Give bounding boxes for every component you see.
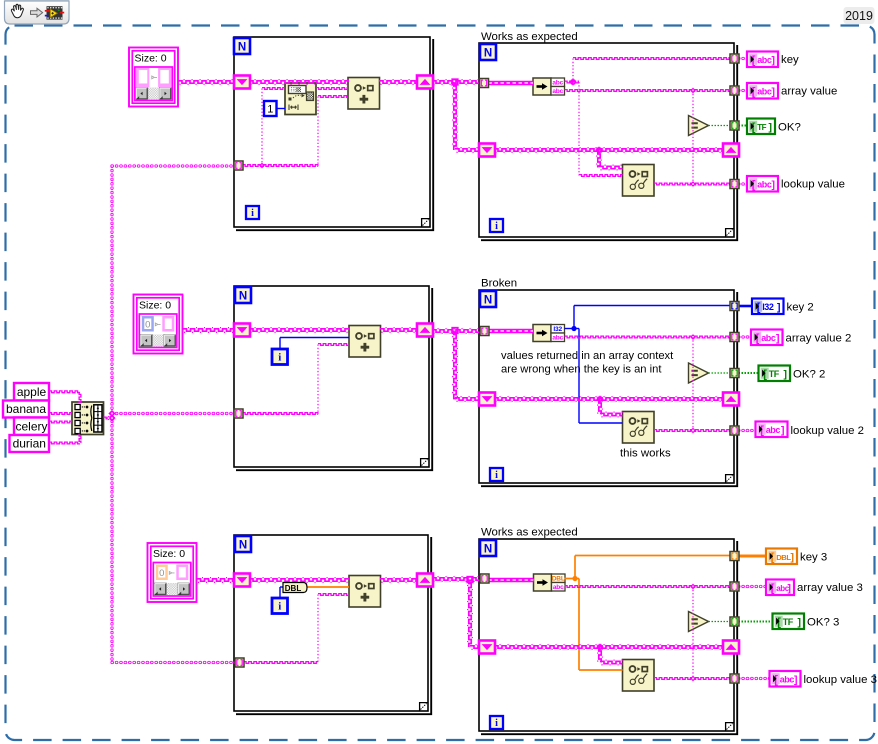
wire value to insert node C [318, 344, 349, 346]
svg-text:array value 2: array value 2 [786, 333, 852, 345]
map wire into loop B shift register [455, 148, 480, 153]
OK? 3 boolean stub [739, 621, 773, 623]
look-in-map node (loop D) [623, 412, 655, 444]
svg-text:lookup value 2: lookup value 2 [791, 425, 864, 437]
key wire drop to lookup F [578, 579, 580, 671]
wire apple drop into node top [79, 392, 81, 403]
map jog into lookup B [599, 165, 623, 170]
string constant celery [14, 418, 49, 436]
svg-text:abc: abc [757, 86, 772, 96]
wire key cell out (loop D) [565, 328, 580, 330]
map wire loop C out to loop D tunnel [432, 329, 480, 334]
tunnel OK out (loop B) [730, 121, 739, 130]
tunnel key 2 out (loop D) [730, 302, 739, 311]
junction map wire loop B [596, 147, 603, 154]
element wire from loop C tunnel [243, 413, 319, 415]
map jog down loop D [598, 399, 603, 415]
svg-text:OK?: OK? [778, 122, 801, 134]
junction lookup value loop F [690, 676, 696, 682]
svg-text:i: i [278, 601, 281, 613]
svg-text:key 2: key 2 [787, 302, 814, 314]
map jog into lookup D [600, 412, 623, 417]
index array node (loop D) [533, 325, 565, 342]
junction array value loop D [690, 334, 696, 340]
indicator array value 3 [766, 580, 794, 596]
junction at build node output [108, 414, 115, 421]
element wire from loop A tunnel [243, 165, 319, 167]
svg-text:DBL: DBL [776, 553, 791, 562]
svg-text:i: i [251, 208, 254, 219]
indicator key [747, 52, 778, 68]
svg-text:Size: 0: Size: 0 [153, 548, 185, 560]
svg-text:]: ] [784, 368, 788, 380]
tunnel loop C left [234, 409, 243, 418]
element wire from loop E tunnel [244, 662, 319, 664]
svg-text:key: key [781, 54, 799, 66]
tunnel array value 2 out (loop D) [730, 333, 739, 342]
indicator array value 2 [751, 330, 783, 346]
svg-text:Works as expected: Works as expected [481, 527, 578, 539]
junction array value loop B [690, 88, 696, 94]
map wire constant1 to loop A shift register [178, 80, 235, 85]
map wire across loop E to insert node [249, 578, 349, 583]
svg-text:abc: abc [553, 584, 564, 591]
equals node (loop F) [689, 612, 709, 632]
svg-text:lookup value: lookup value [781, 179, 845, 191]
build array node (left) [72, 402, 104, 435]
key 2 array stub [739, 305, 753, 308]
wire value drop loop C [317, 345, 319, 414]
equals node (loop B) [689, 116, 709, 136]
loop B count terminal N [480, 44, 496, 60]
for loop C (middle-left) border [234, 286, 432, 470]
map wire insert node to right shift register [379, 80, 418, 85]
map wire loop E out to loop F tunnel [432, 577, 480, 582]
svg-text:N: N [238, 42, 246, 54]
string constant banana [3, 401, 49, 418]
indicator lookup value 2 [756, 422, 788, 438]
wire value drop loop E [317, 595, 319, 663]
array branch wire to loop E tunnel [112, 661, 236, 664]
loop D count terminal N [480, 291, 496, 307]
svg-text:lookup value 3: lookup value 3 [804, 674, 877, 686]
boolean wire equals to tunnel F [709, 621, 732, 623]
loop C count terminal N [235, 287, 251, 303]
svg-text:]: ] [772, 179, 776, 191]
svg-text:]: ] [781, 424, 785, 436]
map wire drop to loop D shift register [453, 331, 458, 400]
svg-text:celery: celery [15, 420, 47, 434]
wire drop from subset input [261, 89, 263, 166]
array value stub [739, 89, 748, 92]
wire banana to build node [49, 413, 72, 415]
2019 version tab [844, 7, 875, 24]
junction loop C output [452, 328, 457, 333]
lookup value 3 stub [739, 677, 770, 680]
svg-text:array value: array value [781, 86, 837, 98]
shift register left (loop D) [479, 393, 495, 406]
tunnel lookup value out (loop B) [730, 180, 739, 189]
tunnel loop E left [235, 658, 244, 667]
svg-text:values returned in an array co: values returned in an array context [501, 350, 674, 362]
array trunk wire vertical [110, 166, 113, 663]
svg-text:]: ] [769, 121, 773, 133]
map wire loop A out to loop B tunnel [432, 80, 480, 85]
svg-text:]: ] [772, 86, 776, 98]
map wire insert to right shift register C [380, 328, 418, 333]
compare wire drop loop F [692, 587, 694, 679]
indicator key 2 [752, 299, 784, 315]
lookup value 2 stub [739, 429, 756, 432]
svg-text:1: 1 [267, 104, 273, 116]
index array node (loop F) [534, 574, 566, 591]
OK? 2 boolean stub [739, 372, 759, 374]
svg-text:]: ] [798, 616, 802, 628]
key wire rise loop B [572, 59, 574, 83]
loop A iteration terminal i [246, 206, 259, 219]
lookup value stub [739, 182, 748, 185]
array value 3 stub [739, 585, 767, 588]
array subset node in loop A [285, 83, 316, 115]
map wire into loop F shift register [470, 645, 480, 650]
loop E iteration terminal i [272, 598, 288, 614]
svg-text:Size: 0: Size: 0 [135, 53, 167, 65]
shift register right (loop B) [723, 144, 739, 157]
OK? boolean stub [739, 125, 748, 127]
key wire into lookup node B [579, 175, 622, 177]
wire key junction jog [573, 81, 579, 83]
key array stub [739, 57, 748, 60]
svg-text:Broken: Broken [481, 277, 517, 289]
toolbar pan-hand icon [11, 4, 23, 17]
array branch wire to loop C tunnel [112, 412, 235, 415]
junction map wire loop D [597, 396, 604, 403]
junction key wire loop D [571, 326, 576, 331]
indicator key 3 [766, 549, 797, 565]
svg-text:]: ] [791, 551, 795, 563]
svg-text:I32: I32 [553, 326, 562, 333]
svg-text:durian: durian [13, 437, 46, 451]
wire value drop loop A [317, 97, 319, 166]
svg-text:DBL: DBL [552, 576, 565, 583]
svg-text:i: i [495, 221, 498, 232]
array value wire loop F [565, 586, 731, 588]
svg-text:OK? 2: OK? 2 [793, 369, 825, 381]
DBL cast constant (loop E) [283, 583, 307, 594]
index array node (loop B) [533, 78, 565, 95]
map jog down loop F [598, 647, 603, 663]
svg-text:abc: abc [761, 333, 776, 343]
wire subset out to insert key [316, 88, 348, 90]
junction map wire loop F [597, 644, 604, 651]
shift register left (loop A) [234, 76, 250, 89]
map wire across loop F [494, 645, 723, 650]
insert-into-map node (loop E) [349, 576, 381, 608]
svg-text:are wrong when the key is an i: are wrong when the key is an int [501, 364, 662, 376]
svg-text:array value 3: array value 3 [797, 582, 863, 594]
key wire into lookup node F [579, 669, 623, 671]
lookup value wire loop F [654, 678, 731, 680]
boolean wire equals to tunnel B [709, 125, 732, 127]
boolean wire equals to tunnel D [709, 372, 732, 374]
loop A count terminal N [234, 38, 250, 54]
svg-text:I32: I32 [762, 302, 774, 312]
indicator lookup value 3 [770, 671, 801, 687]
wire durian to build node [49, 442, 80, 444]
svg-text:N: N [484, 295, 492, 307]
map wire constant2 to loop C shift register [183, 328, 236, 333]
map constant Size:0 (group 3) [148, 543, 197, 602]
key wire to tunnel loop B [573, 58, 731, 60]
key 3 array stub [739, 555, 767, 558]
shift register right (loop D) [723, 393, 739, 406]
insert-into-map node (loop C) [349, 326, 381, 358]
while loop D (middle-right) border [479, 290, 737, 486]
svg-text:N: N [239, 540, 247, 552]
junction key wire loop B [570, 79, 577, 86]
while loop F (bottom-right) border [479, 539, 737, 734]
compare wire drop loop D [692, 337, 694, 431]
svg-text:i: i [495, 718, 498, 729]
key wire to tunnel loop F [575, 555, 731, 557]
indicator lookup value [747, 176, 778, 192]
svg-text:this works: this works [620, 448, 671, 460]
array value wire loop D [565, 336, 731, 338]
loop F count terminal N [480, 540, 496, 556]
wire DBL constant to insert key E [307, 586, 349, 588]
wire apple to build node [49, 391, 80, 393]
look-in-map node (loop F) [623, 660, 655, 692]
tunnel loop F left [480, 574, 489, 583]
string array wire into index node B [489, 81, 534, 86]
svg-text:abc: abc [552, 80, 563, 87]
junction on loop A element wire [259, 163, 265, 169]
junction array value loop F [690, 584, 696, 590]
junction lookup value loop D [690, 428, 696, 434]
svg-text:banana: banana [6, 402, 46, 416]
map wire across loop B [494, 148, 723, 153]
insert-into-map node (loop A) [348, 78, 380, 110]
svg-text:i: i [278, 352, 281, 364]
lookup value wire loop D [654, 430, 731, 432]
for loop E (bottom-left) border [234, 535, 431, 714]
indicator array value [747, 83, 778, 99]
svg-text:apple: apple [17, 385, 47, 399]
svg-text:]: ] [777, 301, 781, 313]
svg-text:abc: abc [552, 88, 563, 95]
svg-text:key 3: key 3 [800, 552, 827, 564]
key wire drop to lookup D [578, 329, 580, 424]
junction on array trunk [108, 410, 115, 417]
svg-text:]: ] [772, 54, 776, 66]
array branch wire to loop A tunnel [112, 164, 235, 167]
svg-text:N: N [484, 48, 492, 60]
svg-text:2019: 2019 [845, 9, 873, 23]
shift register left (loop B) [479, 144, 495, 157]
shift register left (loop C) [234, 324, 250, 337]
wire array to subset node [262, 88, 285, 90]
map wire insert to right shift register E [380, 578, 418, 583]
svg-text:]: ] [794, 674, 798, 686]
shift register left (loop E) [234, 574, 250, 587]
svg-text:DBL: DBL [285, 584, 302, 593]
map jog into lookup F [600, 660, 623, 665]
junction loop A output [452, 79, 457, 84]
svg-text:TF: TF [769, 369, 780, 379]
toolbar VI-snippet film icon [45, 6, 64, 19]
svg-text:OK? 3: OK? 3 [807, 617, 839, 629]
tunnel loop B left [480, 79, 489, 88]
loop F iteration terminal i [490, 716, 503, 729]
wire value to insert node E [318, 594, 349, 596]
loop D iteration terminal i [490, 468, 503, 481]
tunnel loop A left [234, 161, 243, 170]
wire i terminal to insert key C [280, 337, 349, 339]
shift register right (loop E) [417, 574, 433, 587]
junction key wire loop F [572, 576, 577, 581]
svg-text:0: 0 [145, 320, 150, 331]
string array wire into index node F [489, 578, 534, 583]
svg-text:TF: TF [783, 617, 794, 627]
shift register right (loop F) [723, 641, 739, 654]
svg-text:i: i [495, 470, 498, 481]
tunnel OK 3 out (loop F) [730, 617, 739, 626]
shift register left (loop F) [479, 641, 495, 654]
indicator OK? 2 [759, 366, 791, 382]
map wire across loop A to insert node [249, 80, 349, 85]
tunnel lookup value 2 out (loop D) [730, 426, 739, 435]
wire build node output stub [104, 417, 112, 419]
svg-text:abc: abc [766, 425, 781, 435]
look-in-map node (loop B) [623, 165, 655, 197]
map wire into loop D shift register [455, 397, 480, 402]
svg-text:]: ] [776, 332, 780, 344]
wire value to insert node [318, 96, 348, 98]
svg-text:Size: 0: Size: 0 [139, 300, 171, 312]
key wire into lookup node D [579, 422, 623, 424]
key wire rise loop D [573, 306, 575, 329]
wire i terminal rise C [279, 338, 281, 350]
svg-text:TF: TF [757, 123, 766, 132]
svg-text:abc: abc [780, 674, 795, 684]
tunnel OK 2 out (loop D) [730, 369, 739, 378]
map wire across loop C to insert node [249, 328, 349, 333]
svg-text:abc: abc [552, 335, 563, 342]
svg-text:Works as expected: Works as expected [481, 31, 578, 43]
map wire drop to loop F shift register [468, 580, 473, 648]
toolbar run-arrow icon [31, 8, 43, 17]
while loop B (top-right) border [479, 43, 737, 240]
wire celery to build node [49, 421, 72, 423]
map constant Size:0 (group 2) [134, 295, 183, 354]
wire key cell out (loop B) [565, 81, 573, 83]
string constant durian [10, 435, 50, 452]
tunnel array value 3 out (loop F) [730, 582, 739, 591]
array value 2 stub [739, 335, 752, 338]
shift register right (loop A) [417, 76, 433, 89]
map wire drop to loop B shift register [453, 82, 458, 150]
map wire constant3 to loop E shift register [197, 578, 236, 583]
key wire to tunnel loop D [574, 305, 731, 307]
numeric constant 1 (loop A) [264, 101, 277, 116]
junction loop E output [467, 577, 472, 582]
svg-text:N: N [484, 544, 492, 556]
wire i terminal rise E [279, 587, 281, 598]
indicator OK? 3 [773, 614, 805, 630]
map jog down loop B [597, 150, 602, 168]
svg-text:abc: abc [757, 179, 772, 189]
toolbar panel top-left [5, 1, 70, 24]
key wire rise loop F [574, 556, 576, 579]
svg-text:N: N [239, 291, 247, 303]
svg-text:abc: abc [757, 55, 772, 65]
wire key cell out (loop F) [565, 578, 580, 580]
equals node (loop D) [689, 363, 709, 383]
shift register right (loop C) [417, 324, 433, 337]
tunnel array value out (loop B) [730, 86, 739, 95]
for loop A (top-left) border [234, 37, 433, 230]
wire i to DBL E [280, 586, 283, 588]
loop B iteration terminal i [490, 219, 503, 232]
svg-text:]: ] [788, 582, 792, 594]
tunnel lookup value 3 out (loop F) [730, 674, 739, 683]
tunnel loop D left [480, 327, 489, 336]
tunnel key out (loop B) [730, 54, 739, 63]
loop C iteration terminal i [272, 349, 288, 365]
string constant apple [14, 383, 49, 401]
indicator OK? [747, 119, 775, 135]
wire durian rise into node bottom [79, 434, 81, 444]
compare wire drop loop B [692, 91, 694, 185]
tunnel key 3 out (loop F) [730, 552, 739, 561]
lookup value wire loop B [654, 183, 731, 185]
map wire across loop D [494, 397, 723, 402]
map constant Size:0 (group 1) [129, 48, 178, 107]
loop E count terminal N [235, 536, 251, 552]
svg-text:0: 0 [159, 568, 164, 579]
junction lookup value loop B [690, 181, 696, 187]
wire numeric 1 to subset node [276, 108, 285, 110]
array value wire loop B [565, 90, 731, 92]
key wire drop to lookup B [578, 82, 580, 176]
string array wire into index node D [489, 329, 534, 334]
